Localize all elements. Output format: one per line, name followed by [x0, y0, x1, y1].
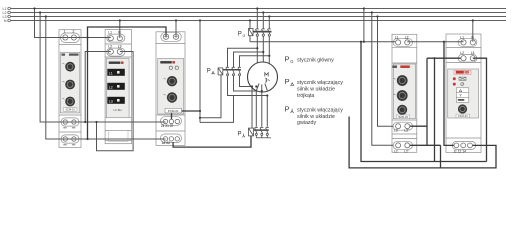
- svg-text:L2: L2: [109, 86, 113, 90]
- svg-text:gwiazdy: gwiazdy: [297, 120, 316, 126]
- svg-text:silnik w układzie: silnik w układzie: [297, 114, 335, 120]
- svg-text:1: 1: [64, 29, 66, 33]
- svg-text:P: P: [285, 77, 290, 86]
- svg-text:stycznik główny: stycznik główny: [297, 58, 334, 64]
- svg-text:L3: L3: [118, 45, 122, 49]
- svg-text:L3: L3: [394, 129, 398, 133]
- svg-text:L3': L3': [404, 129, 409, 133]
- svg-text:P: P: [285, 105, 290, 114]
- svg-text:G: G: [243, 34, 246, 38]
- svg-text:trójkąta: trójkąta: [297, 93, 314, 99]
- svg-text:P: P: [238, 32, 242, 38]
- svg-text:L2: L2: [460, 51, 464, 55]
- svg-text:24 21 22: 24 21 22: [161, 124, 174, 128]
- svg-text:L3: L3: [471, 51, 475, 55]
- svg-text:stycznik włączający: stycznik włączający: [297, 80, 343, 86]
- svg-text:L1: L1: [108, 31, 112, 35]
- svg-text:BZM-03: BZM-03: [398, 115, 408, 119]
- svg-text:stycznik włączający: stycznik włączający: [297, 108, 343, 114]
- svg-text:SZM-01: SZM-01: [65, 108, 75, 112]
- svg-text:CKM-01: CKM-01: [458, 114, 468, 118]
- svg-text:L1: L1: [109, 72, 113, 76]
- svg-text:P: P: [238, 132, 242, 138]
- svg-text:2: 2: [73, 29, 75, 33]
- svg-text:N: N: [4, 19, 7, 23]
- svg-text:L2': L2': [404, 149, 409, 153]
- svg-text:L1': L1': [405, 36, 410, 40]
- svg-text:silnik w układzie: silnik w układzie: [297, 87, 335, 93]
- svg-text:LK-BH: LK-BH: [113, 108, 121, 112]
- svg-text:11 12 14: 11 12 14: [453, 150, 466, 154]
- svg-text:L1: L1: [460, 36, 464, 40]
- svg-text:L1: L1: [395, 36, 399, 40]
- svg-text:L2: L2: [108, 45, 112, 49]
- svg-text:G: G: [290, 59, 293, 64]
- svg-text:PCM-01: PCM-01: [168, 109, 179, 113]
- svg-text:L3: L3: [109, 100, 113, 104]
- svg-text:P: P: [207, 69, 211, 75]
- svg-text:L2: L2: [394, 149, 398, 153]
- svg-text:P: P: [285, 55, 290, 64]
- svg-text:A1 A2: A1 A2: [162, 141, 171, 145]
